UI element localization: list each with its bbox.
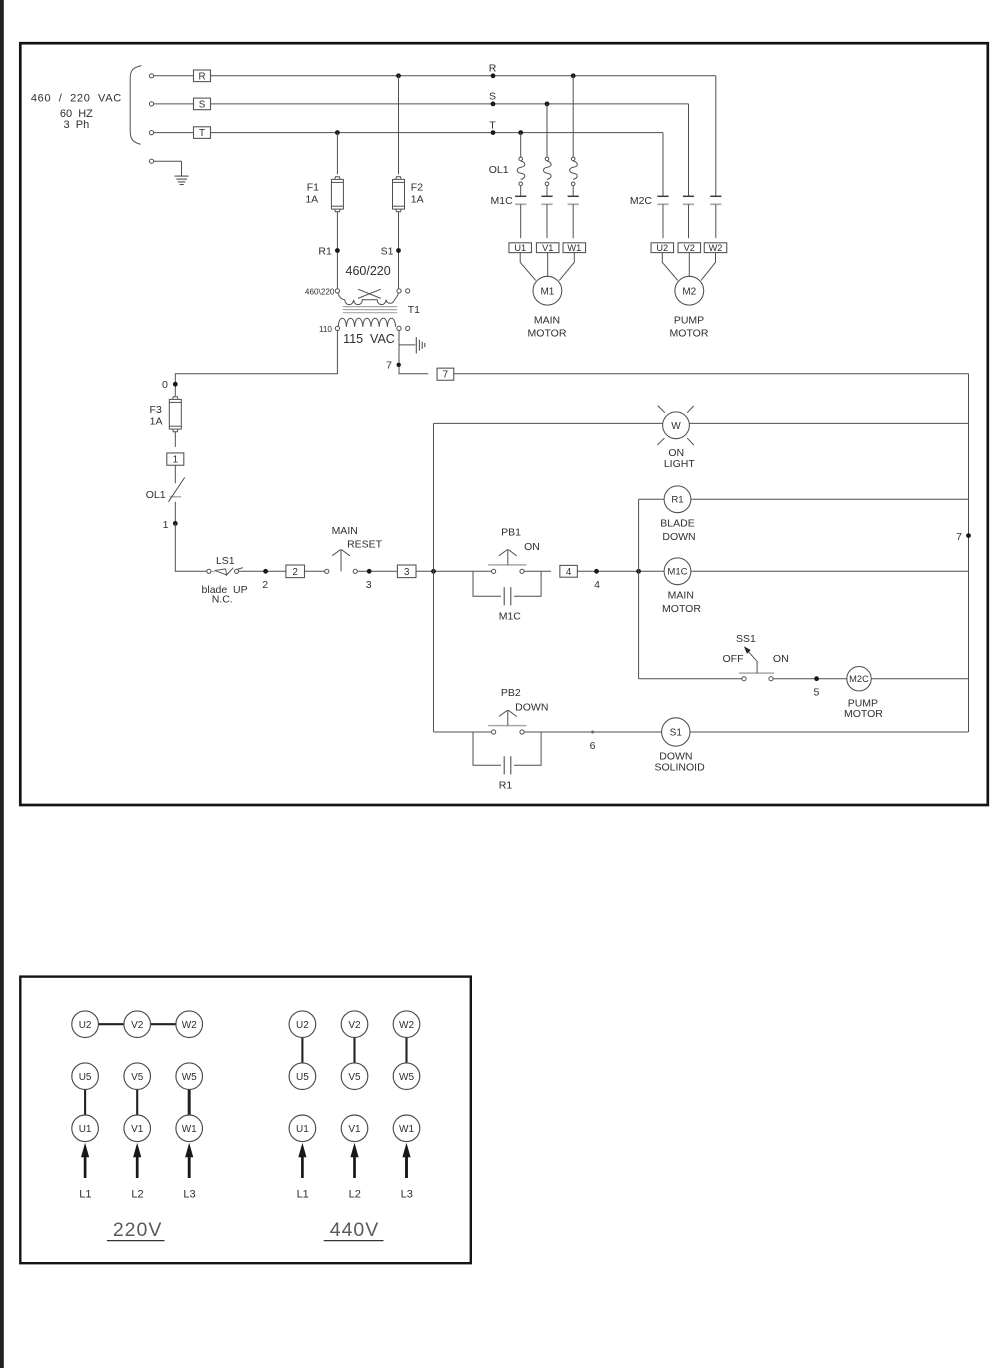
svg-text:PB1: PB1 [501, 526, 521, 538]
svg-text:R: R [489, 62, 497, 74]
node 2 [263, 569, 268, 574]
contactor contact M1C pole 3 [568, 195, 579, 197]
node 4 [594, 569, 599, 574]
svg-text:MOTOR: MOTOR [528, 328, 567, 340]
wire R1 coil to rail [691, 498, 968, 500]
svg-text:V2: V2 [131, 1020, 144, 1031]
svg-text:V2: V2 [684, 243, 695, 253]
wire F1 to primary [336, 212, 338, 289]
svg-text:M2: M2 [682, 286, 696, 297]
svg-text:460\220: 460\220 [305, 288, 335, 297]
contactor contact M2C pole 3 [710, 195, 721, 197]
svg-text:U2: U2 [79, 1020, 92, 1031]
svg-text:DOWN: DOWN [662, 531, 695, 543]
svg-text:4: 4 [594, 579, 600, 591]
relay coil M2C [847, 667, 871, 691]
svg-text:M1: M1 [540, 286, 554, 297]
node R1 [335, 248, 340, 253]
node junction left bus [431, 569, 436, 574]
relay coil R1 [664, 486, 691, 513]
svg-text:F1: F1 [307, 182, 319, 194]
terminal R input [149, 74, 153, 78]
wire M1C to terminal 1 [520, 204, 522, 238]
svg-text:MOTOR: MOTOR [844, 708, 883, 720]
transformer T1 secondary [335, 326, 339, 330]
svg-text:115 VAC: 115 VAC [343, 332, 395, 346]
wire secondary left to node 0 [175, 331, 337, 396]
wire SS1 to M2C coil [773, 678, 847, 680]
node F1 tap on T [335, 130, 340, 135]
svg-text:W5: W5 [182, 1072, 197, 1083]
svg-text:M2C: M2C [630, 195, 653, 207]
svg-text:L1: L1 [297, 1188, 309, 1200]
wire phase drop to OL1 pole 3 [572, 76, 574, 157]
svg-text:1: 1 [173, 455, 178, 466]
svg-text:PB2: PB2 [501, 687, 521, 699]
svg-text:LIGHT: LIGHT [664, 458, 696, 470]
wire S to tag [154, 103, 194, 105]
svg-text:ON: ON [773, 653, 789, 665]
svg-text:S: S [489, 91, 496, 103]
wire F1 drop [336, 133, 338, 175]
node R [491, 73, 496, 78]
terminal U2 [651, 243, 674, 253]
svg-text:L2: L2 [131, 1188, 143, 1200]
svg-text:W1: W1 [567, 243, 581, 253]
wire T to tag [154, 132, 194, 134]
terminal U1 440V [289, 1115, 316, 1142]
wire rung solenoid left [434, 731, 492, 733]
wire M2C to terminal pole 3 [715, 204, 717, 238]
440V jumper W2-W5 [405, 1038, 407, 1063]
overload heater OL1 pole 2 [545, 157, 549, 161]
wire phase drop to OL1 pole 2 [546, 104, 548, 157]
ground terminal [149, 159, 153, 163]
limit switch LS1 [207, 569, 211, 573]
terminal V1 440V [341, 1115, 368, 1142]
ground symbol [175, 175, 189, 177]
node 3 [367, 569, 372, 574]
svg-text:3: 3 [366, 579, 372, 591]
terminal V2 220V [124, 1011, 151, 1038]
pushbutton PB1 ON [492, 569, 496, 573]
svg-text:M1C: M1C [667, 567, 687, 578]
wire tag 4 [560, 565, 578, 577]
svg-text:U2: U2 [656, 243, 668, 253]
wire W2 to motor M2 [701, 253, 716, 281]
svg-text:V1: V1 [542, 243, 553, 253]
svg-text:V5: V5 [131, 1072, 144, 1083]
contactor contact M1C pole 1 [515, 195, 526, 197]
wire phase drop to M2C pole 2 [688, 104, 690, 196]
terminal tag T [194, 127, 211, 139]
wire U2 to motor M2 [662, 253, 677, 281]
wire OL1 to M1C pole 2 [546, 186, 548, 197]
relay coil M1C [664, 558, 691, 585]
wire R to tag [154, 75, 194, 77]
terminal U5 220V [72, 1063, 99, 1090]
contactor contact M1C pole 2 [541, 195, 552, 197]
wire F3 to tag 1 [174, 432, 176, 447]
node 6 [591, 731, 594, 734]
wire V2 to motor M2 [688, 253, 690, 277]
svg-text:1: 1 [163, 519, 169, 531]
terminal W2 [704, 243, 727, 253]
pushbutton PB2 DOWN [492, 730, 496, 734]
wire F2 drop [398, 76, 400, 175]
svg-text:OL1: OL1 [146, 489, 166, 501]
wire F2 to primary [398, 212, 400, 289]
secondary ground stub [399, 344, 415, 346]
svg-text:U1: U1 [514, 243, 526, 253]
terminal W5 220V [176, 1063, 203, 1090]
svg-text:L1: L1 [79, 1188, 91, 1200]
svg-text:W5: W5 [399, 1072, 414, 1083]
svg-text:S: S [199, 99, 206, 110]
wire tag2 to reset [305, 570, 325, 572]
terminal tag S [194, 98, 211, 110]
wire S1 to rail [690, 731, 969, 733]
wire PB2 to S1 [524, 731, 662, 733]
svg-text:MAIN: MAIN [668, 589, 694, 601]
overload heater OL1 pole 1 [519, 157, 523, 161]
terminal U2 440V [289, 1011, 316, 1038]
overload heater OL1 pole 3 [571, 157, 575, 161]
svg-text:V1: V1 [348, 1124, 361, 1135]
svg-text:MOTOR: MOTOR [670, 328, 709, 340]
terminal U2 220V [72, 1011, 99, 1038]
line arrow L1 220V [84, 1155, 87, 1178]
terminal V5 220V [124, 1063, 151, 1090]
svg-text:1A: 1A [150, 415, 163, 427]
terminal W5 440V [393, 1063, 420, 1090]
line arrow L3 220V [188, 1155, 191, 1178]
svg-text:2: 2 [262, 579, 268, 591]
terminal W1 440V [393, 1115, 420, 1142]
svg-text:W1: W1 [182, 1124, 197, 1135]
wire reset to node 3 [357, 570, 397, 572]
wire T phase line [211, 132, 664, 134]
transformer T1 primary [335, 289, 339, 293]
220V jumper U5-U1 [84, 1090, 86, 1116]
svg-text:0: 0 [162, 379, 168, 391]
wire S phase line [211, 103, 689, 105]
node 1 [173, 521, 178, 526]
wire U1 to motor M1 [520, 253, 536, 281]
440V jumper V2-V5 [353, 1038, 355, 1063]
svg-text:W1: W1 [399, 1124, 414, 1135]
node U1 branch on T [518, 130, 523, 135]
node S [491, 102, 496, 107]
terminal V1 220V [124, 1115, 151, 1142]
440V jumper U2-U5 [301, 1038, 303, 1063]
220V jumper V2-W2 [151, 1023, 176, 1025]
svg-text:7: 7 [443, 370, 448, 381]
terminal W1 220V [176, 1115, 203, 1142]
svg-text:SS1: SS1 [736, 633, 756, 645]
svg-text:W2: W2 [399, 1020, 414, 1031]
svg-text:7: 7 [956, 531, 962, 543]
svg-text:M1C: M1C [491, 195, 514, 207]
pushbutton MAIN RESET [325, 569, 329, 573]
svg-text:2: 2 [292, 567, 297, 578]
contact R1 parallel branch [473, 732, 501, 765]
wire OL1 to node 1 [174, 502, 176, 524]
svg-text:U2: U2 [296, 1020, 309, 1031]
svg-text:W2: W2 [182, 1020, 197, 1031]
wire secondary right to node 7 [399, 331, 428, 374]
svg-text:T: T [489, 119, 496, 131]
fuse F3 [173, 397, 178, 400]
terminal T input [149, 131, 153, 135]
svg-text:6: 6 [590, 740, 596, 752]
wire right rail [968, 374, 970, 732]
pilot lamp W [663, 412, 690, 439]
svg-text:RESET: RESET [347, 539, 383, 551]
svg-text:460/220: 460/220 [346, 264, 391, 278]
wire M1C coil to rail [691, 570, 968, 572]
svg-text:S1: S1 [381, 245, 394, 257]
svg-text:OL1: OL1 [489, 164, 509, 176]
svg-text:460 / 220 VAC: 460 / 220 VAC [31, 93, 122, 105]
wire rung lamp left [434, 422, 663, 424]
overload contact OL1 [170, 496, 182, 498]
svg-text:DOWN: DOWN [515, 702, 548, 714]
wire M1C to terminal 2 [546, 204, 548, 238]
wire OL1 to M1C pole 1 [520, 186, 522, 197]
wire PB1 to tag 4 [524, 570, 551, 572]
node 7 rail [966, 533, 971, 538]
wire tag3 to PB1 [416, 570, 492, 572]
220V jumper U2-V2 [98, 1023, 124, 1025]
main schematic border frame [20, 43, 988, 805]
svg-text:440V: 440V [330, 1219, 380, 1241]
motor M2 [675, 276, 704, 305]
svg-text:U5: U5 [296, 1072, 309, 1083]
svg-text:M2C: M2C [849, 674, 869, 684]
supply bracket [130, 66, 141, 145]
node V1 branch on S [545, 102, 550, 107]
line arrow L2 220V [136, 1155, 139, 1178]
wire left bus [433, 423, 435, 732]
220V jumper W5-W1 [188, 1090, 191, 1116]
svg-text:4: 4 [566, 567, 572, 578]
wire phase drop to M2C pole 1 [662, 133, 664, 197]
node S1 [396, 248, 401, 253]
terminal U1 [509, 243, 532, 253]
wire rung R1 left [639, 498, 664, 500]
svg-text:U1: U1 [79, 1124, 92, 1135]
svg-text:5: 5 [813, 686, 819, 698]
wire tag1 to OL1 contact [174, 465, 176, 483]
wire V1 to motor M1 [547, 253, 549, 277]
motor M1 [533, 276, 562, 305]
wire sub bus [638, 499, 640, 678]
wire M1C to terminal 3 [572, 204, 574, 238]
svg-text:V2: V2 [348, 1020, 361, 1031]
wire M2C to terminal pole 2 [688, 204, 690, 238]
terminal connection border frame [20, 977, 471, 1264]
terminal S input [149, 102, 153, 106]
node 5 [814, 676, 819, 681]
line arrow L1 440V [301, 1155, 304, 1178]
terminal W2 220V [176, 1011, 203, 1038]
svg-text:MAIN: MAIN [332, 525, 358, 537]
terminal W1 [563, 243, 586, 253]
svg-text:T: T [199, 128, 205, 139]
svg-text:V5: V5 [348, 1072, 361, 1083]
wire lamp to rail [689, 422, 968, 424]
wire W1 to motor M1 [559, 253, 574, 281]
svg-text:R1: R1 [318, 245, 332, 257]
wire rung pump left [639, 678, 742, 680]
svg-text:OFF: OFF [723, 653, 744, 665]
fuse F1 [335, 177, 340, 180]
svg-text:BLADE: BLADE [660, 518, 694, 530]
wire node1 down to rung [175, 523, 207, 571]
contactor contact M2C pole 2 [683, 195, 694, 197]
terminal W2 440V [393, 1011, 420, 1038]
svg-text:MOTOR: MOTOR [662, 603, 701, 615]
svg-text:R: R [198, 71, 205, 82]
solenoid S1 [662, 718, 690, 746]
wire tag 2 [286, 565, 305, 578]
svg-text:3 Ph: 3 Ph [64, 119, 90, 131]
svg-text:R1: R1 [671, 495, 683, 506]
wire R phase line [211, 75, 716, 77]
contact M1C holding branch [473, 571, 501, 596]
svg-text:F2: F2 [411, 182, 423, 194]
svg-text:W: W [671, 421, 681, 432]
fuse F2 [396, 177, 401, 180]
terminal V1 [536, 243, 559, 253]
svg-text:ON: ON [668, 447, 684, 459]
terminal V2 [678, 243, 701, 253]
svg-text:N.C.: N.C. [212, 593, 233, 605]
svg-text:S1: S1 [670, 727, 683, 738]
svg-text:1A: 1A [411, 194, 424, 206]
wire tag 3 [397, 565, 416, 578]
contactor contact M2C pole 1 [657, 195, 668, 197]
svg-text:F3: F3 [150, 404, 162, 416]
svg-text:PUMP: PUMP [674, 315, 704, 327]
wire tag 1 [167, 453, 184, 465]
svg-text:110: 110 [319, 325, 332, 334]
svg-text:W2: W2 [709, 243, 723, 253]
svg-text:U1: U1 [296, 1124, 309, 1135]
transformer core [343, 306, 398, 308]
wire phase drop to OL1 pole 1 [520, 133, 522, 158]
wire M2C to terminal pole 1 [662, 204, 664, 238]
node 0 [173, 382, 178, 387]
svg-text:L2: L2 [349, 1188, 361, 1200]
wire to ground [154, 160, 182, 162]
220V jumper V5-V1 [136, 1090, 138, 1116]
svg-text:220V: 220V [113, 1219, 163, 1241]
svg-text:LS1: LS1 [216, 555, 235, 567]
svg-text:R1: R1 [499, 779, 513, 791]
node F2 tap on R [396, 73, 401, 78]
node W1 branch on R [571, 73, 576, 78]
svg-text:3: 3 [404, 567, 410, 578]
terminal U5 440V [289, 1063, 316, 1090]
wire node 7 to right rail [454, 373, 969, 375]
terminal V2 440V [341, 1011, 368, 1038]
line arrow L3 440V [405, 1155, 408, 1178]
svg-text:60 HZ: 60 HZ [60, 108, 93, 120]
node junction sub bus [636, 569, 641, 574]
svg-text:L3: L3 [183, 1188, 195, 1200]
svg-text:ON: ON [524, 541, 540, 553]
left page binding bar [0, 0, 4, 1368]
secondary ground symbol [415, 337, 417, 353]
svg-text:L3: L3 [401, 1188, 413, 1200]
line arrow L2 440V [353, 1155, 356, 1178]
wire M2C coil to rail [871, 678, 968, 680]
wire phase drop to M2C pole 3 [715, 76, 717, 197]
svg-text:T1: T1 [408, 304, 420, 316]
svg-text:U5: U5 [79, 1072, 92, 1083]
node T [491, 130, 496, 135]
svg-text:SOLINOID: SOLINOID [655, 761, 706, 773]
node 7 [397, 363, 401, 367]
svg-text:M1C: M1C [499, 611, 522, 623]
svg-text:7: 7 [386, 359, 392, 371]
selector switch SS1 [742, 677, 746, 681]
terminal U1 220V [72, 1115, 99, 1142]
wire LS1 to node 2 [239, 570, 286, 572]
terminal V5 440V [341, 1063, 368, 1090]
svg-text:MAIN: MAIN [534, 315, 560, 327]
wire OL1 to M1C pole 3 [572, 186, 574, 197]
svg-text:1A: 1A [305, 194, 318, 206]
wire tag 7 [437, 368, 454, 380]
terminal tag R [194, 70, 211, 82]
svg-text:V1: V1 [131, 1124, 144, 1135]
wire tag4 to junction [577, 570, 664, 572]
